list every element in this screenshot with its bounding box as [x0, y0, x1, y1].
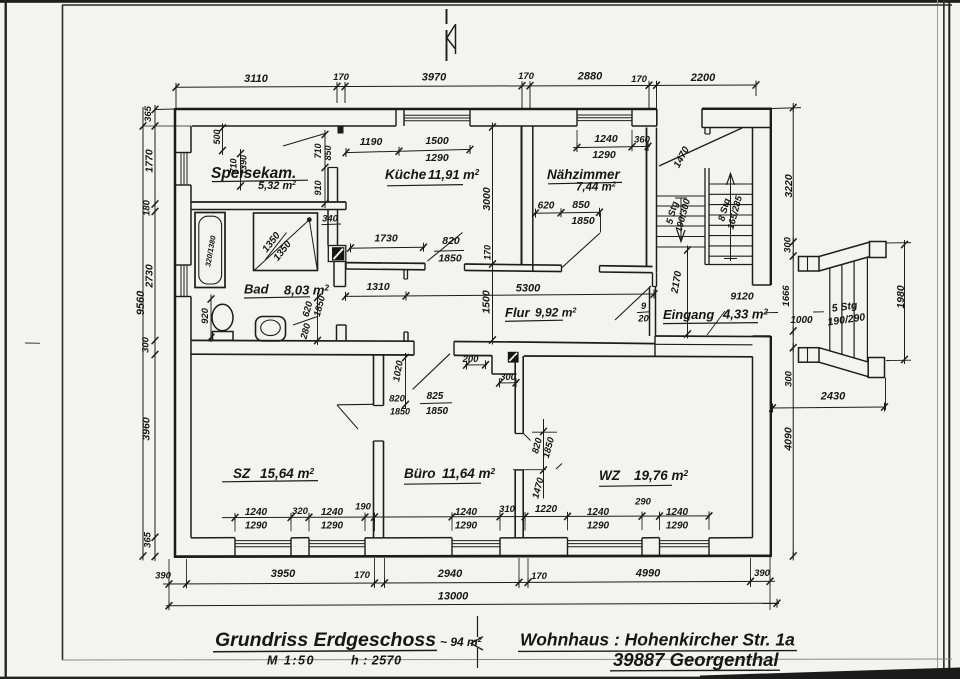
svg-text:360: 360 — [634, 135, 651, 146]
window glazing speisekammer west — [180, 153, 182, 186]
wall bad east below chimney — [333, 262, 335, 287]
svg-text:850: 850 — [572, 199, 590, 211]
chimney flue buero (black square) — [508, 352, 519, 363]
stair newel wall — [704, 168, 706, 265]
dim text 365 top-left — [143, 105, 154, 122]
svg-text:1240: 1240 — [594, 133, 618, 145]
door swing naehzimmer — [562, 233, 600, 268]
door sz swing — [337, 405, 358, 429]
dim text 3000 — [481, 187, 493, 211]
dim line 2170 eingang — [687, 249, 689, 335]
svg-text:1000: 1000 — [790, 315, 813, 326]
dim speisekammer 710/1390 — [240, 152, 242, 188]
dim text 500 — [212, 129, 222, 144]
svg-text:39887 Georgenthal: 39887 Georgenthal — [613, 649, 779, 670]
svg-text:170: 170 — [354, 570, 371, 581]
wall sz-buero partition — [373, 355, 375, 406]
dim text 365 bottom-left — [143, 531, 154, 548]
svg-text:3970: 3970 — [422, 72, 447, 84]
dim text 3220 — [783, 174, 795, 198]
svg-text:9120: 9120 — [730, 291, 754, 303]
stair ext upper stringer — [819, 242, 870, 257]
stair label 8 Stg 165-285 — [715, 191, 745, 231]
dim naehzimmer door 620/850/1850 — [534, 212, 601, 213]
dim kueche door 1730 — [349, 247, 425, 248]
dim text 3960 — [141, 417, 153, 441]
dim speisekammer 500 — [222, 126, 224, 152]
svg-text:Nähzimmer: Nähzimmer — [547, 167, 621, 182]
stair ext risers — [829, 268, 831, 351]
svg-text:340: 340 — [322, 214, 339, 225]
dim text 910 — [313, 180, 323, 195]
wall tab buero nw — [403, 332, 405, 341]
svg-text:1730: 1730 — [374, 233, 398, 245]
shower square — [254, 213, 318, 271]
dim kueche window 1190/1500/1290 — [346, 149, 470, 152]
stair ext lower post — [868, 358, 884, 378]
dim buero door 1020 — [405, 356, 407, 406]
door swing eingang exterior — [707, 311, 725, 335]
svg-text:1666: 1666 — [781, 285, 792, 307]
dim vertical 3000/170/1500 — [492, 125, 494, 341]
door wz hinge strokes — [524, 434, 531, 441]
svg-text:170: 170 — [531, 571, 548, 582]
wall south exterior inner face — [191, 537, 235, 539]
window jambs top wall — [395, 109, 397, 126]
stair down arrow — [680, 198, 682, 241]
sheet frame bottom line — [62, 659, 952, 660]
sheet frame left line — [62, 5, 64, 660]
dim text 300 r2 — [784, 370, 795, 387]
stray mark left margin — [25, 342, 40, 344]
entrance door jamb caps east wall — [753, 284, 771, 286]
dim naehzimmer window 1240/1290/360 — [573, 146, 650, 147]
svg-text:1240: 1240 — [666, 507, 689, 518]
svg-text:1240: 1240 — [245, 507, 268, 518]
svg-text:3960: 3960 — [141, 417, 153, 441]
dimension chain top (3110/170/3970/170/2880/170/2200) — [173, 81, 760, 111]
dimension chain right (3220/300/1666/300/4090) — [772, 103, 801, 561]
wall west exterior inner face — [190, 126, 192, 153]
door swing bad — [293, 317, 318, 326]
window jambs south wall — [234, 538, 236, 556]
svg-text:300: 300 — [783, 236, 794, 253]
dim text 1470 stair diagonal — [672, 145, 692, 170]
svg-text:170: 170 — [518, 71, 535, 82]
window jambs west wall — [175, 152, 191, 154]
svg-text:710: 710 — [229, 158, 239, 173]
svg-text:1220: 1220 — [535, 504, 558, 515]
dim text 710-1390 — [229, 158, 239, 173]
dim 2430 — [771, 407, 886, 408]
svg-text:850: 850 — [323, 145, 333, 160]
stair label 5 Stg 190-300 — [663, 194, 693, 234]
wall east exterior outer face — [770, 108, 772, 285]
svg-text:Küche: Küche — [385, 167, 427, 182]
wall sz north band — [191, 339, 414, 342]
stair bottom edge line — [705, 264, 753, 266]
stair ext upper post — [870, 242, 887, 258]
shower head dot — [307, 217, 312, 222]
svg-text:170: 170 — [483, 245, 493, 260]
svg-text:1500: 1500 — [481, 290, 493, 314]
window glazing naehzimmer north — [577, 114, 632, 116]
dim bad door 620/1850/280 — [317, 296, 319, 342]
svg-text:1390: 1390 — [239, 155, 249, 175]
door swing speisekammer — [283, 134, 325, 147]
svg-text:1240: 1240 — [321, 507, 344, 518]
dim text 2730 — [144, 264, 156, 289]
svg-text:Grundriss Erdgeschoss: Grundriss Erdgeschoss — [215, 629, 436, 651]
svg-text:7,44 m2: 7,44 m2 — [576, 181, 616, 194]
svg-text:910: 910 — [313, 180, 323, 195]
dim 1000 landing — [766, 312, 778, 314]
dim text 1500 flur — [481, 290, 493, 314]
svg-text:820: 820 — [442, 235, 460, 247]
toilet — [212, 304, 233, 330]
door swing flur-eingang — [615, 286, 651, 320]
bathtub label — [203, 234, 217, 267]
bathtub — [195, 213, 225, 288]
dim text 1470 wz — [530, 476, 546, 500]
wall east exterior inner face — [752, 128, 754, 286]
wall stair annex west — [646, 128, 648, 267]
wall eingang south band — [655, 335, 771, 338]
dim text 9560 — [135, 290, 147, 315]
svg-text:Eingang: Eingang — [663, 307, 714, 322]
svg-text:11,91 m2: 11,91 m2 — [428, 167, 480, 182]
svg-text:1310: 1310 — [366, 281, 390, 293]
wall kueche-naehzimmer partition — [521, 126, 523, 265]
svg-text:Flur: Flur — [505, 305, 530, 320]
wall bad east upper — [327, 210, 329, 246]
scan edge: top black band — [0, 0, 960, 3]
dim text 1020 — [391, 359, 406, 382]
svg-text:1290: 1290 — [587, 520, 610, 531]
svg-text:3110: 3110 — [244, 73, 269, 85]
svg-text:1850: 1850 — [426, 406, 449, 417]
svg-text:365: 365 — [143, 105, 154, 122]
svg-text:h : 2570: h : 2570 — [351, 654, 402, 668]
door frame tab speisekammer — [338, 126, 344, 134]
svg-text:1850: 1850 — [390, 407, 410, 417]
scan edge: bottom dark band — [0, 677, 960, 679]
dimension row 13000 — [166, 603, 779, 606]
stair ext landing bottom — [799, 348, 820, 363]
svg-text:8,03 m2: 8,03 m2 — [284, 283, 329, 298]
svg-text:9,92 m2: 9,92 m2 — [535, 306, 577, 320]
dim 1980 stair — [904, 243, 906, 361]
chimney breast outline bad — [328, 246, 346, 262]
svg-text:200: 200 — [462, 354, 480, 365]
svg-text:1770: 1770 — [144, 149, 156, 173]
dim flur 1310/5300 — [344, 294, 655, 296]
scan edge: left black line — [5, 0, 7, 679]
wall stub south of bad door — [336, 325, 338, 340]
svg-text:365: 365 — [143, 531, 154, 548]
dim text 300 r1 — [783, 236, 794, 253]
svg-text:300: 300 — [500, 372, 517, 383]
wall buero-wz partition — [514, 356, 516, 434]
dim text 280 bad — [298, 321, 313, 341]
dimension row overall segments — [163, 557, 775, 610]
scan edge: right outer dark line — [943, 0, 945, 679]
dim text 170 flurwall — [483, 245, 493, 260]
wall top exterior inner face — [192, 125, 396, 127]
svg-text:3950: 3950 — [271, 568, 296, 580]
svg-text:2200: 2200 — [690, 72, 716, 84]
wall flur north middle band — [465, 264, 562, 265]
svg-text:1980: 1980 — [895, 285, 907, 309]
svg-text:1850: 1850 — [571, 215, 595, 227]
dim text 1980 — [895, 285, 907, 309]
chimney breast buero ne — [491, 356, 493, 374]
door sz leaf — [337, 403, 374, 406]
dim wz door 820/1850 — [543, 419, 545, 499]
wall tab at lobby west — [337, 324, 347, 326]
shower diagonals — [254, 220, 309, 271]
svg-text:180: 180 — [142, 199, 153, 216]
dim text 180 — [142, 199, 153, 216]
svg-text:620: 620 — [538, 201, 555, 212]
section mark top — [447, 9, 456, 61]
svg-text:3000: 3000 — [481, 187, 493, 211]
door frame tab flur-eingang — [652, 273, 654, 287]
dim text 1850 wz — [541, 435, 557, 459]
scan edge: bottom right dark wedge — [700, 668, 960, 679]
svg-text:3220: 3220 — [783, 174, 795, 198]
wall west exterior outer face — [174, 108, 177, 558]
wall south exterior outer face — [174, 554, 772, 557]
door frame tab kueche south — [403, 270, 405, 279]
dim bad 920 — [210, 298, 212, 340]
svg-text:1500: 1500 — [425, 135, 449, 147]
wall eingang west — [649, 287, 651, 337]
stair ext lower stringer — [819, 348, 869, 363]
stair flight right treads — [709, 183, 753, 185]
svg-text:2730: 2730 — [144, 264, 156, 289]
svg-text:1240: 1240 — [455, 507, 478, 518]
svg-text:1290: 1290 — [245, 520, 268, 531]
svg-text:825: 825 — [427, 391, 444, 402]
window glazing south windows — [235, 541, 709, 547]
svg-text:1290: 1290 — [455, 520, 478, 531]
dim text 620 bad — [301, 299, 316, 318]
svg-text:320: 320 — [292, 506, 309, 517]
scan edge: right paper edge line — [937, 0, 938, 679]
svg-text:Bad: Bad — [244, 282, 270, 297]
svg-text:2430: 2430 — [820, 391, 846, 403]
dim text 2170 — [669, 270, 684, 295]
svg-text:290: 290 — [634, 497, 652, 508]
svg-text:13000: 13000 — [438, 591, 469, 603]
svg-text:820: 820 — [389, 394, 406, 405]
svg-text:15,64 m2: 15,64 m2 — [260, 466, 315, 481]
window glazing kitchen north — [404, 114, 470, 116]
svg-text:1290: 1290 — [592, 149, 616, 161]
svg-text:390: 390 — [754, 568, 771, 579]
door frame tab stair annex — [704, 128, 706, 135]
svg-text:1290: 1290 — [321, 520, 344, 531]
section mark bottom — [477, 616, 479, 637]
dimension row windows — [222, 511, 712, 531]
dim text 1850 bad — [312, 294, 328, 318]
dim text 4090 — [783, 427, 795, 452]
dim text 300 left — [141, 336, 152, 353]
svg-text:190: 190 — [355, 502, 372, 513]
dim text 820 wz — [530, 436, 545, 455]
dim text 1770 — [144, 149, 156, 173]
svg-text:1190: 1190 — [360, 136, 383, 148]
svg-text:1290: 1290 — [666, 520, 689, 531]
stair ext label 5 Stg 190-290 — [825, 298, 866, 328]
stair ext landing top — [799, 257, 820, 272]
svg-text:2940: 2940 — [437, 568, 463, 580]
svg-text:5,32 m2: 5,32 m2 — [258, 180, 296, 192]
window glazing bad west — [180, 265, 182, 297]
svg-text:4090: 4090 — [783, 427, 795, 452]
svg-text:11,64 m2: 11,64 m2 — [442, 466, 496, 481]
wall kueche south band — [346, 262, 425, 265]
chimney flue bad (black square) — [332, 247, 344, 260]
dimension chain left (365/1770/180/2730/300/3960/365) — [143, 105, 191, 561]
svg-text:2880: 2880 — [577, 71, 603, 83]
svg-text:20: 20 — [637, 314, 649, 325]
washbasin — [256, 317, 286, 342]
svg-text:500: 500 — [212, 129, 222, 144]
wall wz north band — [520, 342, 655, 344]
svg-text:WZ: WZ — [599, 468, 621, 483]
door swing buero — [413, 354, 450, 390]
wall speisekammer east — [327, 168, 329, 203]
svg-text:390: 390 — [155, 571, 172, 582]
dim text 920 — [200, 307, 211, 324]
wall stair annex north — [701, 109, 703, 128]
dim speisekammer door 710/850 — [324, 133, 326, 205]
svg-text:920: 920 — [200, 307, 211, 324]
wall top exterior outer face — [175, 108, 657, 111]
svg-text:4,33 m2: 4,33 m2 — [722, 307, 768, 322]
wall flur north east band — [600, 265, 653, 268]
svg-text:1240: 1240 — [587, 507, 610, 518]
svg-text:170: 170 — [333, 72, 350, 83]
svg-text:19,76 m2: 19,76 m2 — [634, 468, 689, 483]
svg-text:1290: 1290 — [425, 152, 449, 164]
svg-text:310: 310 — [499, 504, 516, 515]
svg-text:300: 300 — [784, 370, 795, 387]
svg-text:4990: 4990 — [635, 568, 661, 580]
sheet frame top line — [62, 4, 952, 6]
stair break line diagonal — [659, 128, 742, 166]
svg-text:1850: 1850 — [438, 253, 462, 265]
svg-text:M 1:50: M 1:50 — [267, 654, 315, 668]
dimension line left overall 9560 — [140, 107, 147, 561]
svg-text:170: 170 — [631, 74, 648, 85]
stair up arrow — [730, 174, 732, 261]
door swing kueche — [428, 233, 463, 262]
dim text 1666 — [781, 285, 792, 307]
svg-text:710: 710 — [313, 143, 323, 158]
svg-text:Wohnhaus : Hohenkircher Str. 1: Wohnhaus : Hohenkircher Str. 1a — [520, 630, 795, 650]
svg-text:Büro: Büro — [404, 466, 436, 481]
svg-text:300: 300 — [141, 336, 152, 353]
shower label 1350/1350 — [257, 226, 298, 268]
svg-text:SZ: SZ — [233, 466, 251, 481]
wall buero north band — [454, 341, 520, 344]
svg-text:9: 9 — [641, 301, 647, 312]
wall speisekammer south / bad north — [191, 201, 346, 203]
svg-text:5300: 5300 — [516, 283, 541, 295]
svg-text:9560: 9560 — [135, 290, 147, 315]
stair flight left treads — [657, 195, 706, 197]
